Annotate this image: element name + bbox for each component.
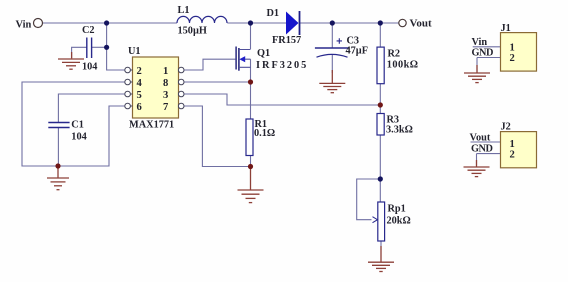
svg-text:U1: U1: [128, 46, 141, 57]
svg-text:IRF3205: IRF3205: [256, 60, 308, 71]
svg-text:1: 1: [510, 43, 515, 54]
svg-text:0.1Ω: 0.1Ω: [254, 128, 275, 139]
svg-text:2: 2: [137, 66, 142, 77]
svg-text:150µH: 150µH: [178, 26, 207, 37]
svg-text:4: 4: [137, 78, 143, 89]
svg-text:Vout: Vout: [410, 18, 433, 30]
svg-text:8: 8: [163, 78, 168, 89]
svg-text:C1: C1: [71, 120, 84, 131]
svg-text:R2: R2: [388, 49, 401, 60]
svg-text:MAX1771: MAX1771: [129, 120, 174, 131]
svg-text:5: 5: [137, 90, 142, 101]
svg-text:C2: C2: [82, 25, 95, 36]
svg-text:104: 104: [71, 132, 86, 143]
svg-text:J2: J2: [501, 122, 511, 133]
svg-text:1: 1: [510, 139, 515, 150]
svg-text:2: 2: [510, 53, 515, 64]
svg-text:1: 1: [163, 66, 168, 77]
svg-text:Rp1: Rp1: [388, 204, 406, 215]
svg-text:104: 104: [82, 62, 97, 73]
svg-text:Vin: Vin: [16, 19, 32, 30]
svg-text:J1: J1: [501, 23, 511, 34]
svg-text:3.3kΩ: 3.3kΩ: [386, 125, 413, 136]
svg-text:100kΩ: 100kΩ: [387, 60, 419, 71]
svg-text:2: 2: [510, 150, 515, 161]
svg-text:Vin: Vin: [472, 37, 488, 48]
svg-text:L1: L1: [178, 5, 190, 16]
svg-text:GND: GND: [471, 144, 492, 155]
svg-text:20kΩ: 20kΩ: [387, 216, 411, 227]
svg-text:3: 3: [163, 90, 168, 101]
svg-text:GND: GND: [472, 48, 493, 59]
svg-text:FR157: FR157: [272, 35, 301, 46]
svg-text:7: 7: [163, 102, 169, 113]
svg-text:47µF: 47µF: [346, 46, 369, 57]
svg-text:D1: D1: [267, 8, 280, 19]
svg-text:Vout: Vout: [470, 133, 491, 144]
svg-text:Q1: Q1: [257, 48, 270, 59]
svg-text:6: 6: [137, 102, 142, 113]
